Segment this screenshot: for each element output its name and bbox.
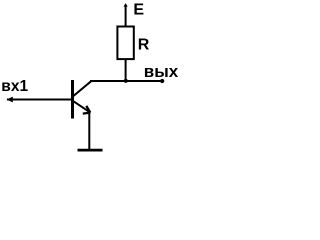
resistor R body [117,27,133,60]
transistor Q1 collector lead [73,81,91,96]
transistor Q1 emitter arrowhead [83,106,91,114]
wire: emitter to ground [88,112,90,150]
svg-text:R: R [138,37,150,54]
wire: collector to output [90,80,162,82]
transistor Q1 emitter lead [73,101,91,113]
svg-text:вых: вых [144,62,179,81]
ground [78,149,103,152]
node E supply arrowhead [124,3,128,7]
transistor Q1 base bar [71,80,74,119]
svg-text:E: E [133,2,144,19]
node вх1 input terminal arrowhead [7,97,13,103]
junction dot [124,79,128,83]
wire: supply to resistor [125,5,127,27]
wire: resistor to collector wire [125,59,127,81]
node вых output terminal dot [160,79,164,83]
svg-text:вх1: вх1 [1,78,28,95]
wire: input base wire [7,99,72,101]
